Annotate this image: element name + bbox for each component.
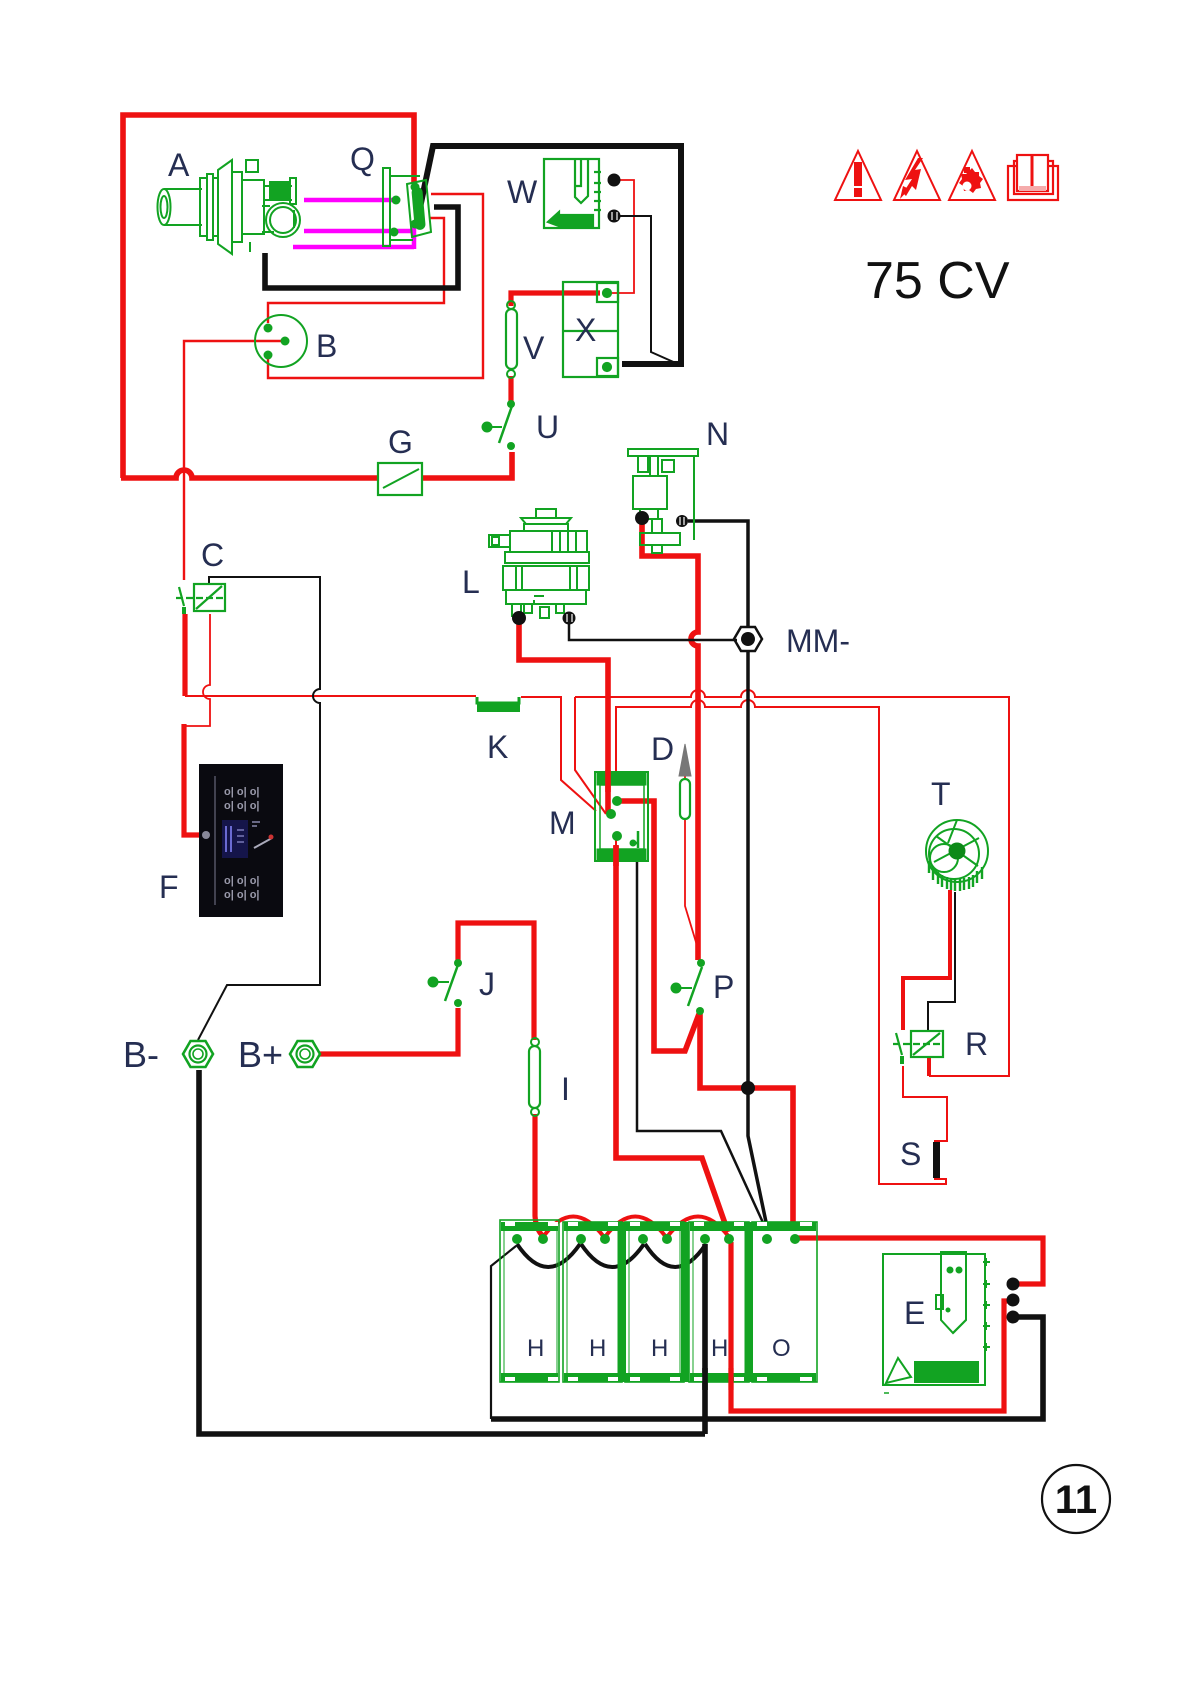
svg-text:V: V	[523, 330, 545, 366]
wire: M black pin down right and diagonal to O left pin	[637, 862, 765, 1227]
component T: flywheel fan	[926, 820, 988, 891]
svg-text:o| o| o|: o| o| o|	[224, 875, 260, 887]
svg-text:W: W	[507, 174, 538, 210]
wire: C box bottom down to F (thin then thick) with hop over Y1	[184, 614, 210, 726]
component M: CDI box	[595, 772, 648, 861]
svg-text:F: F	[159, 869, 179, 905]
component D: sensor	[679, 744, 691, 776]
wire: Y1 thin red line from C to right side, through K	[185, 695, 476, 697]
wire: A motor black to Q plug	[265, 207, 458, 288]
component E: CDI unit/ECU	[883, 1252, 990, 1393]
svg-text:E: E	[904, 1295, 925, 1331]
component J: switch	[454, 959, 462, 967]
icon: warning triangle fire	[949, 151, 995, 200]
wire: N red pin down and to P top (thick, hops drawn on Y lines)	[642, 522, 698, 960]
wire: B mid dot left then down to C (thin red)	[184, 341, 283, 580]
wire: T black down to R box top	[928, 892, 955, 1031]
wire: R box bottom to Y1 tail	[927, 1057, 929, 1076]
component W: regulator box	[544, 159, 601, 228]
wire: C black to B-	[198, 577, 320, 1040]
svg-text:H: H	[651, 1335, 668, 1362]
wire overlays crossing coil bottom bars	[702, 1368, 708, 1390]
svg-text:B: B	[316, 328, 337, 364]
terminal B-	[183, 1041, 213, 1067]
component U: switch	[507, 400, 515, 408]
icon: warning triangle exclamation	[835, 151, 881, 200]
wire: B- down to bottom loop	[199, 1070, 705, 1434]
wire: inside M red ends	[605, 790, 611, 813]
wire overlays through M bars	[605, 770, 611, 792]
svg-text:o| o| o|: o| o| o|	[224, 800, 260, 812]
svg-text:H: H	[589, 1335, 606, 1362]
component B: distributor circle	[255, 315, 307, 367]
component I: fuse	[529, 1046, 540, 1108]
svg-text:N: N	[706, 416, 729, 452]
svg-text:o| o| o|: o| o| o|	[224, 786, 260, 798]
wire: red arcs on coil top p2-p4-p6-p8	[543, 1217, 729, 1238]
wire: W black terminal to X loop	[620, 216, 678, 364]
svg-text:K: K	[487, 729, 508, 765]
wire: L black pin to MM-	[569, 624, 737, 640]
wire: magenta A-Q wire 3	[293, 226, 414, 249]
svg-text:B-: B-	[123, 1034, 159, 1075]
wire: I bottom down to coils	[535, 1114, 543, 1236]
wire: magenta A-Q wire 2	[304, 229, 413, 234]
wire: red supply border top-left	[123, 115, 414, 478]
wire: V top to X pin thick	[511, 293, 600, 306]
icon: manual book	[1008, 155, 1058, 200]
svg-text:O: O	[772, 1335, 791, 1362]
svg-text:H: H	[711, 1335, 728, 1362]
component A: tilt/trim motor	[158, 160, 301, 254]
ignition coils H H H H and O	[500, 1220, 817, 1382]
wire: L red pin to M (thick)	[519, 624, 608, 790]
wire: C switch bottom to Y1 junction (thick short)	[182, 614, 187, 696]
wire: B+ to J bottom	[320, 1008, 458, 1054]
svg-text:C: C	[201, 537, 224, 573]
svg-text:S: S	[900, 1136, 921, 1172]
svg-text:I: I	[561, 1071, 570, 1107]
wire: J top up right down to I fuse	[458, 923, 534, 1040]
svg-text:G: G	[388, 424, 413, 460]
svg-text:Q: Q	[350, 141, 375, 177]
thick vertical separators	[618, 1222, 626, 1382]
wire: magenta A-Q wire 1	[304, 198, 394, 203]
wire: B bottom dot to Q right pin (thin red)	[268, 194, 483, 378]
wire: black arcs under coil pins p1-p3-p5-p7	[517, 1244, 706, 1267]
wire: B top dot to Q (thin red)	[268, 218, 444, 323]
wire: Y2 thin red from M top to right side S loop	[616, 700, 947, 1184]
terminal B+	[290, 1041, 320, 1067]
wire: D bottom thin red joining N wire above P	[685, 748, 699, 952]
svg-text:A: A	[168, 147, 190, 183]
component F: instrument panel	[199, 764, 283, 917]
wire: Y1 right segment from M corner to T loop	[575, 690, 1009, 1076]
component Q: connector	[383, 168, 431, 246]
svg-text:o| o| o|: o| o| o|	[224, 889, 260, 901]
wire: O right pin to E terminal1	[797, 1238, 1043, 1284]
coil box H2	[563, 1222, 622, 1382]
svg-text:U: U	[536, 409, 559, 445]
svg-text:B+: B+	[238, 1034, 283, 1075]
svg-text:R: R	[965, 1026, 988, 1062]
junction dot on black at red crossing	[741, 1081, 755, 1095]
coil box H3	[625, 1222, 684, 1382]
component X: rectifier	[563, 282, 618, 377]
green bars bottom	[501, 1373, 558, 1382]
W terminals	[608, 174, 621, 187]
wire: M pin1 right and down to P bottom	[617, 801, 699, 1051]
coil box H4	[689, 1222, 749, 1382]
component C: relay/switch	[176, 584, 225, 614]
wire: coil p7 down	[702, 1244, 708, 1434]
svg-text:MM-: MM-	[786, 623, 850, 659]
wire: thick red main horizontal to G and U	[121, 470, 379, 478]
component V: fuse	[506, 309, 517, 369]
wire: T red down to R lever	[903, 890, 950, 1030]
wire: Q plug to X bottom pin big loop	[417, 146, 681, 364]
wire: bottom black bus to E terminal3	[491, 1317, 1043, 1419]
svg-text:D: D	[651, 731, 674, 767]
page number	[1042, 1465, 1110, 1533]
component G: fuse box	[378, 463, 422, 495]
wire: U bottom pin to G line already; U top to V bottom	[508, 376, 513, 402]
svg-text:X: X	[575, 312, 596, 348]
component S: connector clip	[933, 1142, 940, 1178]
component K: connector bracket	[477, 697, 519, 703]
component L: alternator	[489, 509, 589, 618]
wire: P bottom down to y1088 then right and down to coil O pin	[700, 1014, 793, 1230]
Q pins	[392, 196, 401, 205]
component P: switch	[697, 959, 705, 967]
white notches on bars	[505, 1222, 812, 1381]
coil pins	[512, 1234, 800, 1244]
wire: M pin3 down then diagonal to coil p8	[615, 707, 617, 860]
coil box O	[752, 1222, 817, 1382]
green bars top	[501, 1222, 558, 1231]
svg-text:H: H	[527, 1335, 544, 1362]
svg-text:J: J	[479, 966, 495, 1002]
svg-text:L: L	[462, 564, 480, 600]
wire: coil p8 down right to E terminal2	[731, 1242, 1010, 1411]
svg-text:75 CV: 75 CV	[865, 252, 1010, 310]
svg-text:P: P	[713, 969, 734, 1005]
component R: relay	[893, 1031, 943, 1064]
wire: W red terminal to X top pin (thin)	[612, 180, 634, 293]
component N: starter solenoid	[628, 449, 698, 553]
node MM-: ground stud	[734, 627, 762, 651]
wire: coil p1 diagonal down left	[491, 1246, 516, 1419]
coil box H1	[500, 1220, 559, 1382]
wire: N black pin right down through MM- to coil O left pin	[688, 521, 766, 1222]
svg-text:M: M	[549, 805, 576, 841]
svg-text:T: T	[931, 776, 951, 812]
icon: warning triangle electric	[894, 151, 940, 200]
svg-text:11: 11	[1055, 1478, 1097, 1522]
